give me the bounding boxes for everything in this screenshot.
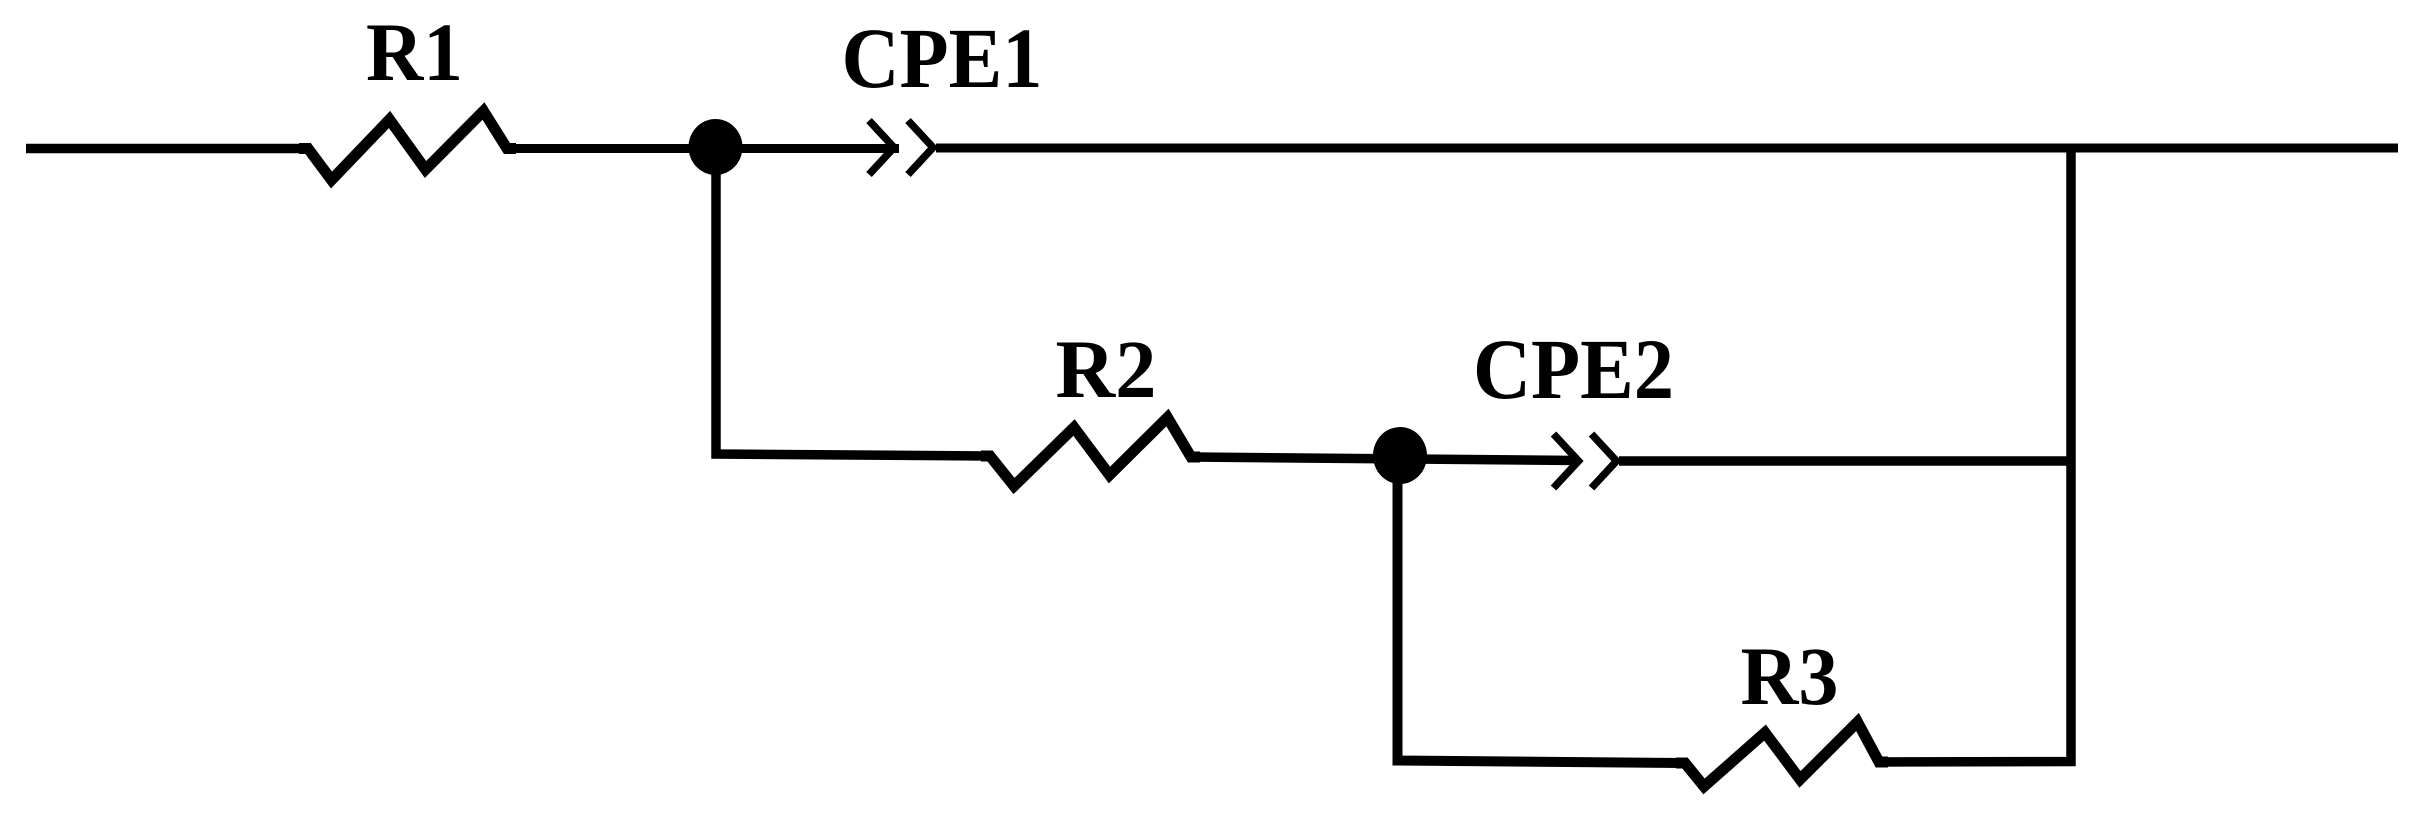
- svg-text:R1: R1: [366, 6, 463, 98]
- svg-text:R2: R2: [1056, 323, 1157, 415]
- svg-text:CPE1: CPE1: [842, 10, 1043, 106]
- svg-text:CPE2: CPE2: [1473, 321, 1674, 417]
- svg-text:R3: R3: [1741, 630, 1839, 722]
